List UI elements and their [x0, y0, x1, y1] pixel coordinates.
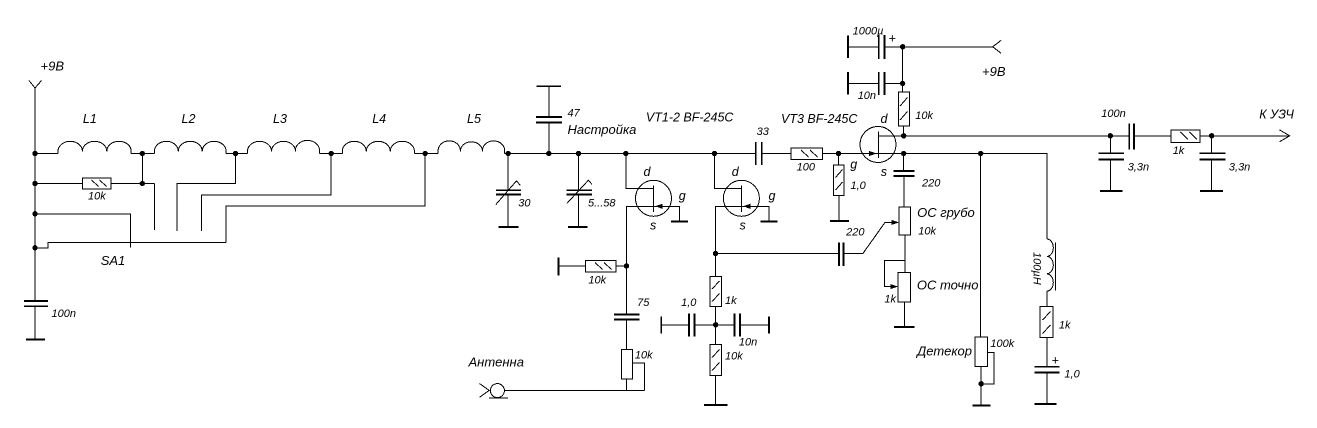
label g (VT2)	[769, 189, 776, 203]
wire: VT1 drain	[626, 154, 654, 189]
label ОС грубо	[917, 205, 975, 220]
node: L4/L5 junction	[423, 151, 428, 156]
node: rail / bias line	[32, 181, 37, 186]
inductor L1	[58, 141, 131, 153]
node: VT3 drain / 10k load	[901, 133, 906, 138]
label L1	[83, 112, 97, 126]
label g (VT1)	[679, 189, 686, 203]
svg-text:L3: L3	[273, 112, 287, 126]
label g (VT3)	[850, 158, 857, 172]
ground terminal (detector)	[972, 404, 990, 406]
node: supply / 1000µ	[900, 44, 905, 49]
svg-text:1k: 1k	[725, 295, 737, 307]
wire: L2/L3 tap to SA1 contact 2	[177, 154, 235, 232]
wire: VT2 drain	[714, 154, 741, 189]
label L2	[182, 112, 196, 126]
node: supply / 10n	[900, 81, 905, 86]
label 10k (ОС грубо)	[918, 226, 936, 238]
label + (1,0 polarity)	[1052, 353, 1059, 367]
node: bus / 47 cap	[546, 151, 551, 156]
svg-text:К УЗЧ: К УЗЧ	[1259, 107, 1294, 121]
svg-text:1k: 1k	[1059, 319, 1071, 331]
label 47	[568, 107, 581, 119]
wire: pot chain link	[904, 235, 906, 272]
wire: VT2 source down	[716, 206, 742, 253]
capacitor 3,3n (second)	[1200, 136, 1226, 191]
node: L2/L3 junction	[233, 151, 238, 156]
node: VT1 source / 10k / 75	[624, 263, 629, 268]
svg-text:L4: L4	[372, 112, 386, 126]
resistor 1k (choke filter)	[1040, 291, 1053, 367]
node: bus / VT2 drain / 33 cap	[712, 151, 717, 156]
capacitor 100n (output coupling)	[1129, 123, 1171, 149]
svg-text:SA1: SA1	[101, 253, 126, 268]
resistor 100 (VT3 gate series)	[791, 148, 822, 160]
inductor L2	[154, 141, 226, 153]
inductor L4	[342, 141, 414, 153]
svg-text:100n: 100n	[52, 308, 76, 320]
wire: VT1 gate to open terminal	[654, 206, 689, 221]
label + (1000µ polarity)	[889, 32, 896, 46]
svg-text:1,0: 1,0	[1064, 369, 1080, 381]
svg-text:33: 33	[757, 126, 770, 138]
label 10n (supply)	[858, 90, 876, 102]
svg-text:1,0: 1,0	[681, 297, 697, 309]
label 10k (band bias)	[88, 190, 106, 202]
inductor L3	[248, 140, 320, 153]
wire: L4/L5 tap to SA1 common	[226, 154, 425, 243]
svg-text:3,3n: 3,3n	[1229, 161, 1250, 173]
resistor 10k (VT2 source lower)	[710, 325, 721, 405]
wire: +9B feed	[903, 47, 993, 92]
label d (VT2)	[732, 165, 740, 179]
inductor L5	[438, 141, 505, 154]
svg-text:s: s	[740, 218, 746, 232]
label VT1-2 BF-245C	[646, 111, 735, 125]
label 220 (source)	[921, 178, 941, 190]
svg-text:10k: 10k	[588, 274, 606, 286]
label 1,0 (gate leak)	[851, 180, 867, 192]
label 10k (antenna)	[635, 349, 653, 361]
label 100n (rail bypass)	[52, 308, 76, 320]
node: VT3 gate / 1,0 resistor	[836, 151, 841, 156]
node: L5/trimmer junction	[506, 151, 511, 156]
node: output / 3,3n second	[1209, 133, 1214, 138]
power terminal +9B (left)	[29, 81, 42, 89]
wire: main bus segments	[35, 154, 1047, 240]
resistor 10k (VT1 source, horizontal)	[558, 258, 626, 276]
label 1,0 (divider)	[681, 297, 697, 309]
node: VT2 source / 1k / 220 coupling	[713, 251, 718, 256]
svg-text:+: +	[1052, 353, 1059, 367]
wire: VT1 source down	[627, 206, 654, 266]
svg-text:100µH: 100µH	[1030, 252, 1042, 285]
label 30	[518, 197, 531, 209]
capacitor 100n (rail bypass)	[24, 301, 48, 340]
node: detector bottom	[978, 381, 983, 386]
svg-text:220: 220	[921, 178, 941, 190]
label 1k (output)	[1173, 145, 1185, 157]
svg-text:100k: 100k	[990, 338, 1014, 350]
wire: bias tap down to SA1 contact 1	[153, 184, 155, 230]
trimmer capacitor 30	[496, 154, 521, 228]
svg-text:3,3n: 3,3n	[1128, 161, 1149, 173]
trimmer capacitor 5...58	[566, 154, 592, 228]
label L4	[372, 112, 386, 126]
label 33	[757, 126, 770, 138]
capacitor 10n (supply bypass)	[848, 72, 903, 95]
label d (VT1)	[644, 165, 652, 179]
label 220 (coupling)	[845, 226, 865, 238]
label 10k (VT1 source)	[588, 274, 606, 286]
label s (VT3)	[881, 165, 887, 179]
ground terminal (VT2 divider)	[704, 404, 727, 406]
label К УЗЧ	[1259, 107, 1294, 121]
svg-text:VT3 BF-245C: VT3 BF-245C	[781, 112, 858, 126]
resistor 1k (output)	[1171, 130, 1290, 142]
capacitor 3,3n (first)	[1098, 136, 1124, 191]
node: bus / trimmer 5...58	[576, 151, 581, 156]
resistor 10k (VT3 drain load)	[898, 83, 909, 135]
label 100n (output)	[1101, 108, 1125, 120]
wire: ОС точно wiper bracket	[884, 261, 904, 290]
node: VT2 source divider	[713, 322, 718, 327]
label ОС точно	[917, 277, 979, 292]
output arrow К УЗЧ	[1279, 130, 1289, 142]
potentiometer ОС грубо 10k	[899, 207, 911, 235]
label SA1	[101, 253, 126, 268]
wire: VT2 gate to open terminal	[741, 206, 777, 221]
wire: L1/L2 junction to bias line	[141, 154, 143, 184]
svg-text:30: 30	[518, 197, 531, 209]
svg-text:47: 47	[568, 107, 581, 119]
svg-text:75: 75	[637, 297, 650, 309]
svg-text:5...58: 5...58	[588, 198, 616, 210]
label Настройка	[568, 122, 637, 137]
svg-text:100: 100	[797, 162, 816, 174]
label s (VT2)	[740, 218, 746, 232]
svg-text:10n: 10n	[739, 337, 757, 349]
svg-text:s: s	[650, 218, 656, 232]
capacitor 1,0 (left of divider)	[661, 314, 715, 337]
svg-text:g: g	[769, 189, 776, 203]
node: L3/L4 junction	[329, 151, 334, 156]
power terminal +9B (right)	[993, 40, 1001, 53]
svg-text:1k: 1k	[1173, 145, 1185, 157]
node: VT3 source / bus	[901, 151, 906, 156]
svg-text:Настройка: Настройка	[568, 122, 637, 137]
capacitor 1000µ (supply filter)	[848, 35, 903, 59]
node: bus / detector branch	[978, 151, 983, 156]
svg-text:10k: 10k	[915, 110, 933, 122]
label 100µH (rotated)	[1030, 252, 1042, 285]
capacitor 10n (right of divider)	[716, 314, 769, 337]
node: rail / SA1 bar	[32, 245, 37, 250]
svg-text:L5: L5	[467, 112, 481, 126]
svg-text:10k: 10k	[725, 351, 743, 363]
resistor 10k (antenna trimmer)	[621, 349, 644, 390]
potentiometer ОС точно 1k	[894, 272, 915, 327]
node: bus / VT1 drain	[623, 151, 628, 156]
label 75	[637, 297, 650, 309]
svg-text:L2: L2	[182, 112, 196, 126]
label s (VT1)	[650, 218, 656, 232]
node: rail / SA1 wiper feed	[32, 211, 37, 216]
svg-text:10k: 10k	[918, 226, 936, 238]
wire: L3/L4 tap to SA1 contact 3	[201, 154, 331, 232]
svg-text:1k: 1k	[884, 294, 896, 306]
resistor 100k (Детекор)	[975, 154, 994, 406]
capacitor 47 (tuning series)	[536, 86, 562, 153]
svg-text:VT1-2 BF-245C: VT1-2 BF-245C	[646, 111, 735, 125]
label 5...58	[588, 198, 616, 210]
capacitor 75	[614, 266, 639, 350]
svg-text:10k: 10k	[88, 190, 106, 202]
label 3,3n (first)	[1128, 161, 1149, 173]
transistor VT2	[723, 180, 759, 216]
switch SA1 common bar	[35, 242, 226, 248]
wire: VT3 drain output line	[904, 135, 1129, 137]
label +9B (left)	[41, 59, 65, 74]
resistor 10k (band bias)	[35, 178, 154, 189]
svg-text:g: g	[679, 189, 686, 203]
label 1k (choke filter)	[1059, 319, 1071, 331]
label L5	[467, 112, 481, 126]
svg-text:+9В: +9В	[41, 59, 65, 74]
label d (VT3)	[881, 112, 889, 126]
label VT3 BF-245C	[781, 112, 858, 126]
resistor 1,0 (VT3 gate leak)	[830, 154, 849, 222]
capacitor 1,0 (polar)	[1034, 367, 1059, 404]
label 3,3n (second)	[1229, 161, 1250, 173]
label 10k (drain load)	[915, 110, 933, 122]
svg-text:ОС грубо: ОС грубо	[917, 205, 975, 220]
svg-text:220: 220	[845, 226, 865, 238]
svg-text:d: d	[644, 165, 652, 179]
svg-text:10n: 10n	[858, 90, 876, 102]
label 10n (divider)	[739, 337, 757, 349]
label Детекор	[915, 343, 972, 358]
node: bias line / L1-L2 tap	[140, 181, 145, 186]
svg-text:d: d	[881, 112, 889, 126]
svg-text:1000µ: 1000µ	[853, 26, 884, 38]
label 1,0 (polar)	[1064, 369, 1080, 381]
wire: VT3 drain stub	[879, 135, 904, 137]
label 10k (VT2 source lower)	[725, 351, 743, 363]
resistor 1k (VT2 source)	[710, 254, 721, 325]
label 1k (ОС точно)	[884, 294, 896, 306]
svg-text:g: g	[850, 158, 857, 172]
wire: coupling to ОС грубо wiper	[844, 220, 899, 254]
node: L1/L2 junction	[140, 151, 145, 156]
svg-text:Антенна: Антенна	[468, 354, 524, 369]
label 100k	[990, 338, 1014, 350]
svg-text:10k: 10k	[635, 349, 653, 361]
capacitor 220 (feedback coupling)	[716, 243, 844, 266]
label 1000µ	[853, 26, 884, 38]
svg-text:ОС точно: ОС точно	[917, 277, 979, 292]
svg-text:d: d	[732, 165, 740, 179]
antenna jack	[480, 384, 509, 399]
svg-text:s: s	[881, 165, 887, 179]
svg-text:+: +	[889, 32, 896, 46]
svg-text:L1: L1	[83, 112, 97, 126]
label 100	[797, 162, 816, 174]
svg-text:100n: 100n	[1101, 108, 1125, 120]
label Антенна	[468, 354, 524, 369]
svg-text:+9В: +9В	[982, 64, 1006, 79]
capacitor 220 (VT3 source)	[894, 154, 915, 208]
svg-text:Детекор: Детекор	[915, 343, 972, 358]
node: output line / 3,3n first	[1108, 133, 1113, 138]
wire: antenna line	[504, 389, 644, 391]
inductor 100µH (choke)	[1047, 239, 1056, 291]
svg-text:1,0: 1,0	[851, 180, 867, 192]
node: rail / main bus	[32, 151, 37, 156]
transistor VT1	[636, 180, 672, 216]
transistor VT3	[860, 127, 896, 163]
label L3	[273, 112, 287, 126]
wire: left supply rail	[34, 88, 36, 301]
wire: SA1 wiper feed	[35, 214, 131, 248]
label 1k (VT2 source)	[725, 295, 737, 307]
label +9B (right)	[982, 64, 1006, 79]
capacitor 33	[756, 142, 762, 165]
